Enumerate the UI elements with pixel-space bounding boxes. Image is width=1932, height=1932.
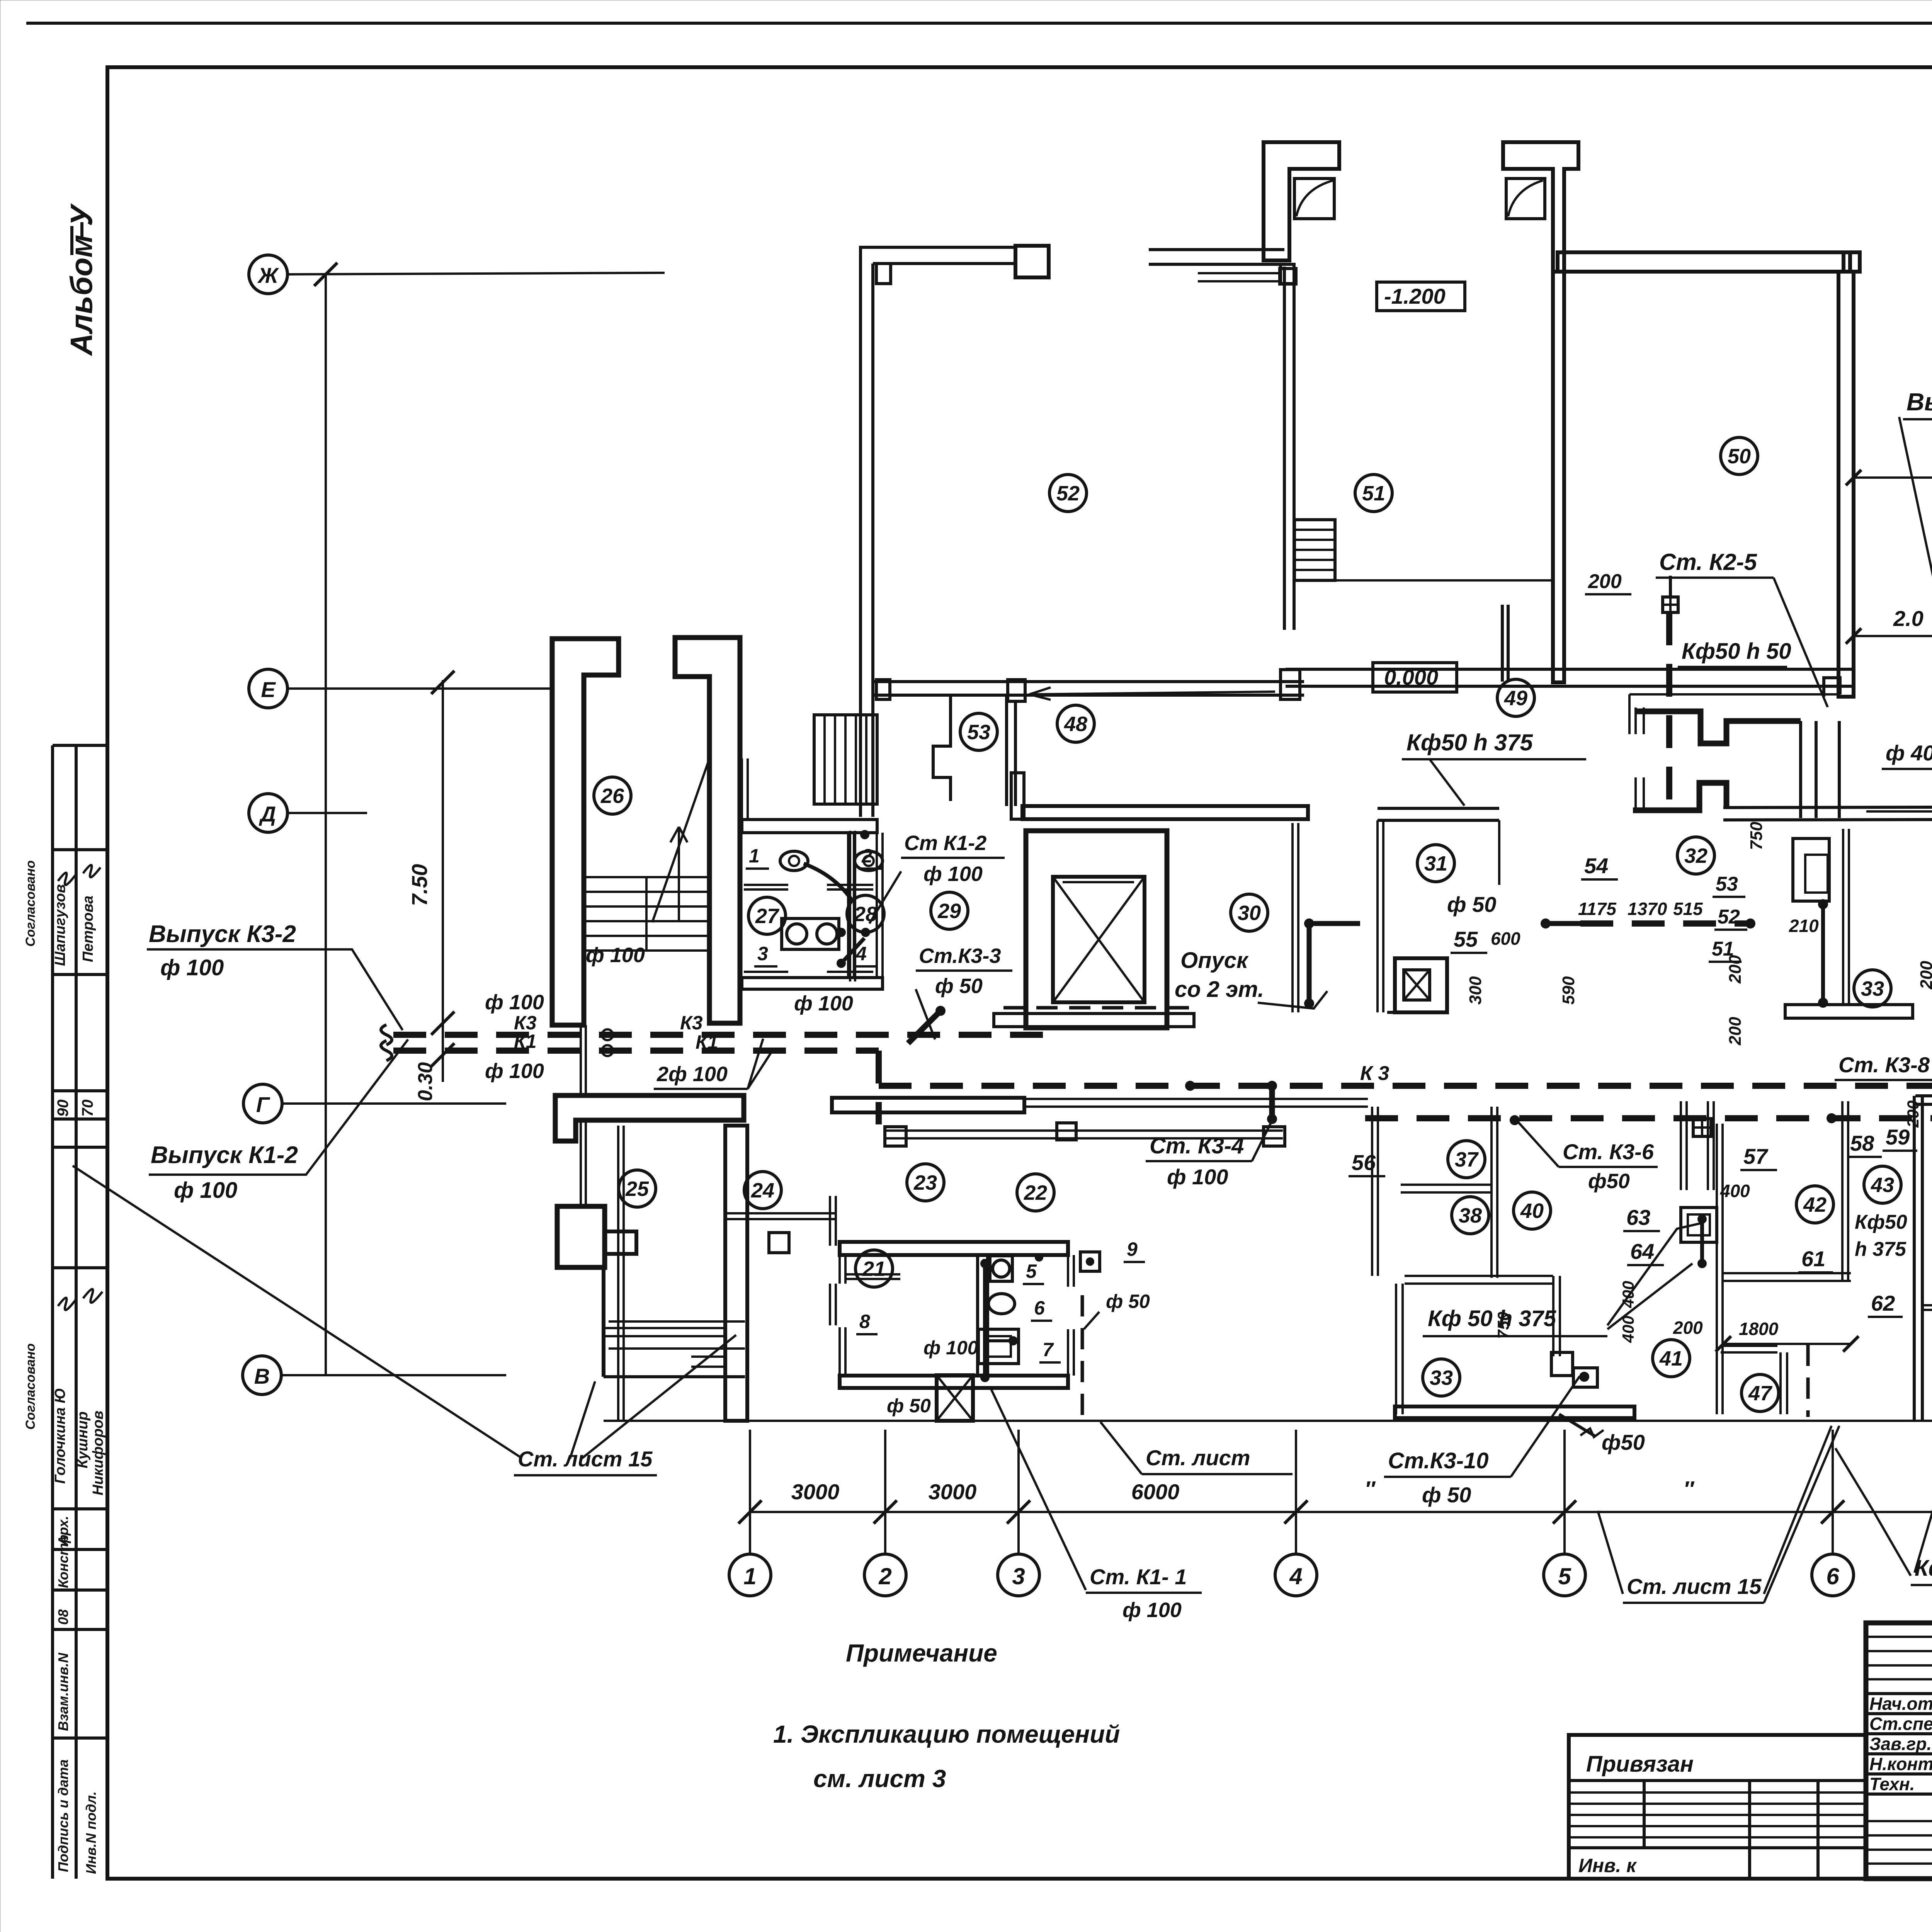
svg-text:Нач.отд.: Нач.отд. [1869,1694,1932,1714]
svg-text:57: 57 [1743,1144,1769,1168]
stack pipes room 63/64 [1700,1217,1704,1265]
svg-text:2.0: 2.0 [1893,606,1923,631]
svg-text:200: 200 [1726,1017,1745,1046]
room 31 [1417,845,1454,882]
svg-text:37: 37 [1455,1148,1479,1171]
svg-text:23: 23 [913,1171,937,1194]
room 25 [619,1170,656,1207]
svg-text:″: ″ [1365,1476,1376,1501]
svg-text:50: 50 [1728,445,1751,468]
svg-text:26: 26 [600,784,624,808]
WC fixture [990,1256,1012,1281]
stack K1 pipe [849,831,851,981]
svg-text:0.000: 0.000 [1384,665,1438,689]
stair left wall [552,639,619,1025]
svg-text:90: 90 [54,1100,71,1117]
svg-text:Г: Г [256,1092,270,1117]
svg-text:47: 47 [1748,1382,1773,1405]
axis circle 4 [1275,1554,1317,1596]
leader from Vypusk K2-2 [1899,417,1932,720]
tower 2 [1503,142,1578,272]
svg-text:33: 33 [1861,977,1884,1000]
axis Г [243,1084,282,1123]
svg-text:51: 51 [1362,482,1385,505]
room 25 shelf lines [605,1327,725,1329]
stack pipe K1-1 [983,1259,987,1379]
svg-text:Петрова: Петрова [80,896,96,962]
bottom wall [840,1376,1068,1388]
svg-text:3000: 3000 [791,1480,840,1504]
axis circle 5 [1544,1554,1585,1596]
room 40 [1514,1192,1551,1229]
right wall [1838,272,1854,697]
svg-text:Ст. К3-8: Ст. К3-8 [1838,1053,1930,1077]
svg-text:1. Экспликацию помещений: 1. Экспликацию помещений [773,1720,1120,1748]
svg-text:Ст. К3-4: Ст. К3-4 [1150,1133,1244,1158]
stair treads [584,876,709,878]
svg-text:515: 515 [1673,899,1703,919]
svg-text:см. лист 3: см. лист 3 [813,1765,946,1793]
svg-text:″: ″ [1684,1476,1695,1501]
svg-text:1: 1 [749,845,760,867]
svg-text:Шапигузов: Шапигузов [52,884,68,966]
long wall band left of corridor [885,1129,1283,1132]
svg-text:64: 64 [1630,1239,1654,1264]
axis circle 2 [864,1554,906,1596]
svg-text:ф 100: ф 100 [1122,1599,1182,1622]
main K1 [393,1048,879,1054]
0.000 level box [1373,663,1457,692]
K3 bend to stack [908,1012,939,1043]
svg-text:Выпуск К1-2: Выпуск К1-2 [151,1142,298,1168]
left wall [1376,820,1379,1012]
svg-text:210: 210 [1789,916,1819,936]
wash basin oval [988,1294,1015,1314]
svg-text:Ст.К3-10: Ст.К3-10 [1388,1448,1489,1473]
alcove 53 walls [1005,695,1008,806]
right wall segments [1067,1255,1069,1287]
room 30 [1231,894,1268,931]
top wall [861,246,1015,249]
svg-text:4: 4 [1289,1563,1302,1589]
axis circle 6 [1812,1554,1854,1596]
svg-text:5: 5 [1026,1260,1037,1282]
svg-text:Е: Е [261,677,276,702]
svg-text:3000: 3000 [929,1480,977,1504]
svg-text:24: 24 [751,1179,774,1202]
center partition [978,1255,988,1376]
svg-text:6: 6 [1034,1297,1045,1319]
vertical dashed connector [876,1051,882,1124]
svg-text:К3: К3 [680,1012,703,1034]
svg-text:Выпуск К3-2: Выпуск К3-2 [149,921,296,947]
small stair in 51 [1294,520,1335,580]
outfall S symbols [381,1025,392,1045]
svg-text:3: 3 [757,943,768,964]
right boundary [876,833,878,979]
entrance steps [609,1320,745,1323]
svg-text:53: 53 [967,721,990,744]
top wall [1378,807,1499,810]
svg-text:К1: К1 [696,1031,718,1053]
svg-text:7.50: 7.50 [407,864,432,906]
double pipe lines dropping left [580,1120,582,1206]
svg-text:ф 100: ф 100 [174,1178,237,1203]
svg-text:Кф50: Кф50 [1855,1211,1907,1233]
svg-text:ф50: ф50 [1588,1170,1630,1193]
svg-text:Ст.К3-3: Ст.К3-3 [919,944,1001,968]
wash ovals [780,851,808,871]
svg-text:8: 8 [859,1311,870,1332]
svg-text:Ст. лист 15: Ст. лист 15 [1627,1574,1762,1599]
svg-text:Привязан: Привязан [1586,1752,1694,1777]
horizontal pipe in corridor [1544,921,1580,926]
room 43 [1864,1166,1901,1203]
vertical dimension line 7.50 / 0.30 [442,680,444,1082]
svg-text:400: 400 [1720,1181,1750,1201]
svg-text:Ст К1-2: Ст К1-2 [904,832,986,855]
room 29 [931,892,968,929]
svg-text:62: 62 [1871,1291,1895,1315]
outer top border [26,22,1932,25]
svg-text:Зав.гр.: Зав.гр. [1869,1734,1932,1754]
svg-text:54: 54 [1584,854,1608,878]
elevator shaft small with X [937,1375,973,1421]
svg-text:63: 63 [1626,1205,1650,1230]
svg-text:Ст. лист: Ст. лист [1146,1446,1250,1470]
svg-text:5: 5 [1558,1563,1571,1589]
svg-text:41: 41 [1659,1347,1683,1370]
main K3 [393,1032,1043,1038]
svg-text:1175: 1175 [1578,899,1617,919]
svg-text:Ст. К3-6: Ст. К3-6 [1563,1139,1654,1164]
room 47 [1742,1374,1779,1412]
stair run diagonal [652,759,709,922]
svg-text:52: 52 [1718,906,1740,928]
svg-text:200: 200 [1917,961,1932,990]
room 22 [1017,1174,1054,1211]
svg-text:61: 61 [1801,1247,1825,1271]
svg-text:70: 70 [79,1100,96,1117]
svg-text:49: 49 [1504,687,1527,710]
corridor left drop wall [1011,773,1024,819]
axis Е [249,669,287,708]
svg-text:Кф50 h 375: Кф50 h 375 [1406,730,1533,755]
room 48 [1057,705,1094,742]
svg-text:52: 52 [1056,482,1080,505]
svg-text:со 2 эт.: со 2 эт. [1175,977,1264,1002]
svg-text:ф 100: ф 100 [923,1337,978,1359]
room 33 right walls [1552,1276,1554,1356]
svg-text:58: 58 [1850,1131,1874,1155]
left wall double [859,246,862,817]
left small wall above [741,759,743,820]
partition 51/49 lower [1501,605,1504,682]
svg-text:0.30: 0.30 [414,1062,437,1101]
dashed stack line right of block [1081,1295,1084,1421]
svg-text:200: 200 [1726,955,1745,984]
stair right wall [675,638,740,1023]
svg-text:Н.конт.: Н.конт. [1869,1754,1932,1774]
svg-text:Опуск: Опуск [1180,948,1249,973]
top wall of WC block [742,820,877,833]
pier at left end [876,264,891,284]
room 33 [1854,970,1891,1007]
band wall below rooms 51/50 [1286,668,1852,671]
room 30 right wall [1291,823,1294,1012]
wall between 52 and 51 [1198,272,1280,274]
partition 37/40 [1490,1107,1493,1278]
1800 dim [1723,1343,1851,1345]
svg-text:Ст.спец.: Ст.спец. [1869,1714,1932,1734]
elevator car with X [1053,877,1145,1002]
svg-text:27: 27 [755,905,780,928]
svg-text:2: 2 [878,1563,891,1589]
svg-text:1800: 1800 [1739,1319,1779,1339]
axis circle 3 [998,1554,1039,1596]
left wall of room 60 [1913,1096,1916,1422]
svg-text:Д: Д [259,802,276,826]
room 28 [847,895,884,932]
svg-text:55: 55 [1454,927,1478,951]
svg-text:ф 100: ф 100 [923,862,983,886]
svg-text:Голочкина Ю: Голочкина Ю [52,1388,68,1484]
top wall [1558,252,1850,272]
thin terrace boundary [1629,693,1840,696]
tower 1 window square [1294,179,1334,219]
svg-text:Кушнир: Кушнир [75,1412,91,1468]
axis Ж [249,255,287,294]
corridor lower thick wall [1022,806,1308,819]
dim 4.0 [1854,476,1932,479]
room 30 bottom wall [994,1014,1194,1027]
svg-text:Примечание: Примечание [846,1639,997,1667]
bottom wall piece [1387,1011,1447,1014]
left wall of block [1371,1107,1373,1276]
axis Д [249,794,287,832]
partition 37/38 horizontal [1401,1184,1492,1186]
svg-text:08: 08 [55,1609,71,1625]
svg-text:590: 590 [1559,976,1578,1005]
svg-text:2: 2 [861,845,872,867]
lower wall of closet [1922,1304,1932,1306]
svg-text:Ст. лист 15: Ст. лист 15 [518,1447,653,1471]
room 52 [1049,474,1087,512]
svg-text:3: 3 [1012,1563,1025,1589]
svg-text:h 375: h 375 [1855,1238,1906,1260]
svg-text:Ж: Ж [257,263,279,287]
window verticals to corridor wall [1799,721,1802,818]
svg-text:ф 50: ф 50 [935,975,983,998]
bottom wall of 52 / top of corridor 48 [872,680,1304,683]
svg-text:1370: 1370 [1628,899,1667,919]
svg-text:ф 50: ф 50 [887,1395,931,1417]
door-side thin double [1634,707,1637,734]
room 51 [1355,474,1392,512]
double pipe lines above wall [580,1025,582,1095]
room 49 [1497,679,1534,716]
svg-text:Ст. К2-5: Ст. К2-5 [1659,549,1757,575]
svg-text:6: 6 [1826,1563,1839,1589]
svg-text:6000: 6000 [1131,1480,1180,1504]
svg-text:38: 38 [1459,1204,1482,1227]
svg-text:ф50: ф50 [1602,1430,1645,1454]
svg-text:Кф50 h 390: Кф50 h 390 [1915,1556,1932,1581]
right partition [1498,820,1500,885]
svg-text:40: 40 [1520,1199,1544,1223]
svg-text:ф 50: ф 50 [1106,1291,1150,1312]
svg-text:Техн.: Техн. [1869,1774,1915,1794]
svg-text:Констр.: Констр. [55,1531,71,1588]
room 42 right wall [1841,1101,1844,1281]
partition rooms 24/23 horizontal [724,1212,836,1214]
dim 2.0 [1854,635,1932,637]
room 33 top wall [1405,1275,1553,1277]
svg-text:43: 43 [1871,1173,1894,1197]
elevator shaft outer [1026,831,1167,1028]
room 33 bottom wall [1395,1406,1634,1418]
room 21 [855,1250,893,1287]
svg-text:200: 200 [1904,1100,1922,1128]
svg-text:Инв.N подл.: Инв.N подл. [83,1791,99,1874]
room 24 [744,1172,781,1209]
svg-text:300: 300 [1466,976,1485,1005]
room 23 [907,1164,944,1201]
stair up arrow [678,827,680,922]
basins [782,918,839,949]
svg-text:Выпуск К2-2: Выпуск К2-2 [1906,388,1932,416]
top wall right segment [1149,248,1284,251]
stack closet near 750/210 dims [1793,838,1829,901]
fixtures in 57 [1680,1101,1682,1190]
small box with stack 9 [1080,1252,1100,1271]
room 33 left wall [1395,1284,1397,1414]
axis circle 1 [729,1554,771,1596]
partition 41/47 [1721,1345,1777,1347]
room 37 [1448,1141,1485,1178]
partition room24/23 [829,1196,831,1246]
svg-text:ф 100: ф 100 [1167,1165,1228,1189]
top wall of rooms 23/21 band [832,1098,1024,1112]
St K2-5 riser dashed [1666,612,1672,808]
svg-text:7: 7 [1043,1339,1054,1361]
svg-text:200: 200 [1673,1318,1703,1338]
svg-text:600: 600 [1491,929,1520,949]
right wall double (52/51 divider) [1283,267,1286,630]
svg-text:56: 56 [1352,1150,1376,1175]
room 26 [594,777,631,814]
room 42 bottom wall [1723,1272,1851,1274]
svg-text:750: 750 [1747,821,1766,850]
room 53 [960,713,997,750]
left wall segments [838,1255,841,1284]
room 33 [1423,1359,1460,1396]
west wall of lower wing [725,1126,747,1421]
svg-text:1: 1 [743,1563,756,1589]
svg-text:25: 25 [625,1177,649,1201]
svg-text:33: 33 [1430,1366,1453,1389]
K3-4 stack drop [1269,1086,1275,1120]
left part thin top rows [1866,1636,1932,1638]
main K3 lower corridor [879,1083,1932,1089]
svg-text:2ф 100: 2ф 100 [656,1063,728,1086]
svg-text:ф 50: ф 50 [1447,892,1496,917]
center partition [847,833,849,979]
svg-text:Подпись и дата: Подпись и дата [55,1759,71,1872]
dots on main at junctions with risers [1827,1113,1837,1123]
svg-text:ф 100: ф 100 [160,955,224,980]
room 38 [1452,1197,1489,1234]
top wall [1915,1094,1932,1097]
tower 1 [1264,142,1339,260]
svg-text:ф 100: ф 100 [485,1060,544,1083]
svg-text:К1: К1 [514,1031,537,1052]
bottom wall [742,978,883,989]
svg-text:ф 100: ф 100 [485,991,544,1014]
partition x4443 [1716,1124,1718,1414]
stall dividers [744,884,788,886]
svg-text:29: 29 [937,900,961,923]
small elevator [1395,958,1447,1012]
title block outer rect [1866,1623,1932,1879]
sink unit [978,1329,1019,1364]
bench in room 21 [845,1273,900,1276]
grille shaft block [814,715,877,804]
wall below stair [555,1095,744,1141]
door arrow in corridor [1029,687,1275,700]
lower zigzag thick wall [1633,783,1726,810]
svg-text:42: 42 [1803,1193,1827,1216]
building bottom line [604,1420,1932,1422]
axis drop lines [749,1430,751,1554]
room 32 [1677,837,1714,874]
svg-text:Согласовано: Согласовано [23,1343,38,1430]
svg-text:53: 53 [1716,873,1738,895]
svg-text:28: 28 [854,903,877,926]
second corridor main [1365,1115,1932,1121]
pipe with dots right of room 30 [1307,922,1312,1005]
svg-text:ф 50: ф 50 [1422,1483,1471,1507]
svg-text:4: 4 [855,943,867,964]
svg-text:Ст. К1- 1: Ст. К1- 1 [1090,1565,1187,1589]
svg-text:400: 400 [1619,1316,1637,1343]
small crossing circles on mains [602,1029,613,1040]
svg-text:30: 30 [1238,901,1261,925]
svg-text:32: 32 [1684,844,1708,867]
upper zigzag thick wall [1636,711,1801,743]
axis В [243,1356,281,1395]
left wall [1553,272,1564,682]
-1.200 level box [1377,282,1465,311]
name rows [1866,1692,1932,1695]
entrance porch block [557,1206,605,1267]
svg-text:31: 31 [1424,852,1447,875]
svg-text:22: 22 [1024,1181,1047,1204]
svg-text:Инв. к: Инв. к [1578,1855,1637,1876]
svg-text:200: 200 [1588,570,1622,593]
bottom dimension line [750,1511,1932,1513]
svg-text:Взам.инв.N: Взам.инв.N [55,1652,71,1731]
top wall [840,1242,1068,1255]
svg-text:ф 100: ф 100 [794,992,853,1015]
svg-text:К 3: К 3 [1360,1062,1389,1085]
svg-text:ф 100: ф 100 [586,944,645,967]
svg-text:ф 400: ф 400 [1886,741,1932,765]
top wall step block [1015,246,1049,277]
room 42 [1796,1186,1833,1223]
room 50 [1721,437,1758,474]
drain grid square [1663,597,1678,612]
